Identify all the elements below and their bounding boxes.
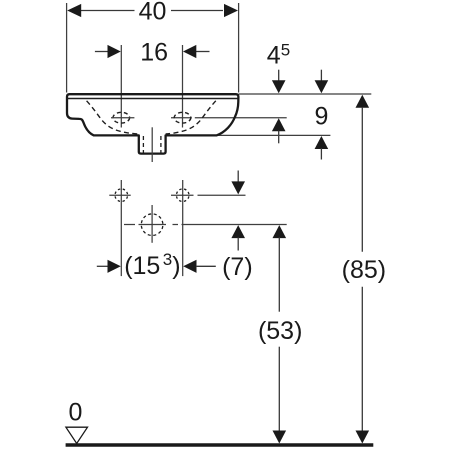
dimension 16: right tail line — [196, 51, 210, 53]
dimension 40: left arrowhead — [67, 4, 81, 17]
dimension 15.3: left extension line — [120, 180, 122, 276]
bowl hidden contour left (dashed) — [87, 101, 139, 134]
dimension 16: right extension line — [182, 45, 184, 128]
dimension 15.3: right extension line — [182, 180, 184, 276]
dimension 40: dimension line — [81, 10, 224, 12]
dimension 4.5: upper arrowhead pointing down — [272, 80, 286, 93]
dimension 9: lower arrow tail — [320, 148, 322, 159]
dimension 40: right arrowhead — [224, 4, 238, 17]
dimension 40: right extension line — [238, 3, 240, 93]
dimension 7: upper arrow tail — [237, 171, 239, 183]
plan view: right fixing hole circle (dashed) — [176, 189, 189, 202]
dimension 9: upper arrowhead pointing down — [315, 80, 329, 93]
plan view: left fixing hole circle (dashed) — [115, 189, 128, 202]
dimension 53: bottom arrowhead pointing down — [273, 431, 287, 444]
dimension 4.5: upper arrow tail — [278, 70, 280, 81]
plan view: drain horizontal centre line (dash-dot) extending to 53-reference — [124, 224, 287, 226]
dimension 53: upper arrowhead pointing up — [273, 225, 287, 238]
dimension 85: dimension line upper segment — [361, 107, 363, 252]
svg-text:40: 40 — [139, 0, 167, 25]
drain hidden lines (dashed) — [142, 136, 144, 153]
washbasin outline — [67, 94, 238, 153]
dimension 15.3: left tail line — [97, 265, 109, 267]
dimension 7: lower arrowhead pointing up — [231, 225, 245, 238]
rim top reference line extended right — [239, 93, 372, 95]
dimension 9: upper arrow tail — [320, 70, 322, 81]
dimension 7: upper arrowhead pointing down — [231, 181, 245, 194]
right tap hole ellipse (dashed) — [174, 112, 191, 123]
svg-text:0: 0 — [68, 399, 82, 427]
plan view: drain hole circle (dashed) — [141, 214, 163, 236]
svg-text:16: 16 — [140, 39, 168, 67]
svg-text:(7): (7) — [222, 253, 253, 281]
dimension 4.5: lower arrowhead pointing up — [272, 118, 286, 131]
dimension 85: bottom arrowhead pointing down — [356, 431, 370, 444]
svg-text:(153): (153) — [124, 250, 180, 280]
left tap hole crosshair — [111, 117, 134, 119]
svg-text:9: 9 — [314, 102, 328, 130]
dimension 16: right arrowhead — [183, 45, 196, 58]
dimension 40: left extension line — [66, 3, 68, 93]
basin centre line — [151, 127, 153, 162]
plan view: left fixing hole crosshair — [109, 194, 130, 196]
floor line — [66, 443, 374, 446]
dimension 15.3: left arrowhead — [108, 260, 121, 273]
dimension 4.5: lower arrow tail — [278, 131, 280, 144]
svg-text:(85): (85) — [342, 256, 386, 284]
dimension 16: left arrowhead — [108, 45, 121, 58]
dimension 9: lower arrowhead pointing up — [315, 136, 329, 149]
plan view: drain vertical centre line — [151, 205, 153, 243]
dimension 7: lower arrow tail — [237, 237, 239, 250]
dimension 9: reference line extension of basin bottom — [217, 134, 331, 136]
dimension 16: left extension line — [120, 45, 122, 128]
dimension 16: left tail line — [95, 51, 109, 53]
dimension 85: top arrowhead pointing up — [356, 95, 370, 108]
datum triangle symbol — [66, 427, 88, 443]
plan view: right fixing hole crosshair and 7-reference line — [171, 194, 246, 196]
dimension 85: dimension line lower segment — [361, 287, 363, 432]
dimension 15.3: right tail line — [196, 265, 216, 267]
bowl hidden contour right (dashed) — [166, 101, 216, 134]
svg-text:(53): (53) — [258, 317, 302, 345]
dimension 4.5: reference line at tap hole axis — [171, 117, 287, 119]
left tap hole ellipse (dashed) — [113, 112, 130, 123]
dimension 15.3: right arrowhead — [183, 260, 196, 273]
washbasin rim bottom edge line — [66, 98, 237, 100]
dimension 53: dimension line upper segment — [278, 237, 280, 311]
dimension 53: dimension line lower segment — [278, 347, 280, 432]
